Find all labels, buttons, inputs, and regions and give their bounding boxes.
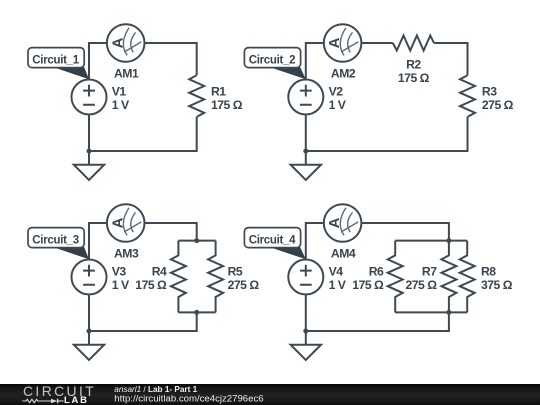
annotation box Circuit_4 <box>244 228 300 248</box>
annotation box Circuit_2 <box>244 48 300 68</box>
svg-text:R1: R1 <box>211 85 226 99</box>
svg-text:http://circuitlab.com/ce4cjz27: http://circuitlab.com/ce4cjz2796ec6 <box>114 394 263 405</box>
ammeter AM1 <box>107 24 145 62</box>
voltage source V3 <box>72 260 107 295</box>
wire AM4 to parallel node <box>362 223 449 241</box>
svg-text:1 V: 1 V <box>329 278 347 292</box>
svg-text:V4: V4 <box>329 265 344 279</box>
svg-text:R8: R8 <box>481 265 496 279</box>
label R6 value <box>352 265 384 293</box>
label R1 value <box>211 85 243 113</box>
wire AM3 to parallel node <box>145 223 197 241</box>
wire V1 bottom to ground <box>88 115 90 165</box>
voltage source V1 <box>72 80 107 115</box>
svg-text:175 Ω: 175 Ω <box>135 278 167 292</box>
label R5 value <box>228 265 260 293</box>
label R4 value <box>135 265 167 293</box>
svg-text:R6: R6 <box>369 265 384 279</box>
label AM4 <box>331 247 356 261</box>
ground <box>291 165 321 180</box>
annotation box Circuit_1 <box>28 48 84 68</box>
wire V2 bottom to ground <box>305 115 307 165</box>
wire top bracket <box>395 240 467 242</box>
junction dot bottom node <box>446 310 451 315</box>
wire bottom node to bottom rail <box>306 312 449 331</box>
wire V2 top to AM2 <box>306 43 324 80</box>
logo resistor-diode squiggle <box>22 399 63 404</box>
label R2 value <box>398 58 430 86</box>
svg-text:ansarl1 / Lab 1- Part 1: ansarl1 / Lab 1- Part 1 <box>114 385 197 394</box>
label AM1 <box>114 67 139 81</box>
label R3 value <box>482 85 514 113</box>
resistor R7 <box>441 241 456 313</box>
label R8 value <box>481 265 513 293</box>
wire V3 bottom to ground <box>88 295 90 345</box>
wire V1 top to AM1 <box>89 43 107 80</box>
junction dot node V4- <box>303 329 308 334</box>
resistor R4 <box>171 241 186 313</box>
svg-text:Circuit_4: Circuit_4 <box>249 234 296 246</box>
wire V4 bottom to ground <box>305 295 307 345</box>
svg-text:1 V: 1 V <box>329 98 347 112</box>
footer url line <box>114 394 263 405</box>
junction dot node V3- <box>87 329 92 334</box>
wire R2 to R3 top <box>434 43 468 75</box>
label V1 value <box>112 85 130 113</box>
wire R3 bottom to node <box>306 117 468 151</box>
resistor R1 <box>189 75 204 117</box>
svg-text:275 Ω: 275 Ω <box>482 98 514 112</box>
wire V4 top to AM4 <box>306 223 324 260</box>
svg-text:275 Ω: 275 Ω <box>406 278 438 292</box>
annotation pointer Circuit_3 <box>52 247 89 259</box>
resistor R6 <box>388 241 403 313</box>
wire AM2 to R2 <box>362 42 393 44</box>
ground <box>74 165 104 180</box>
svg-text:275 Ω: 275 Ω <box>228 278 260 292</box>
wire V3 top to AM3 <box>89 223 107 260</box>
svg-text:175 Ω: 175 Ω <box>398 71 430 85</box>
junction dot top node <box>194 238 199 243</box>
wire bottom bracket <box>178 311 215 313</box>
svg-text:AM2: AM2 <box>331 67 356 81</box>
annotation pointer Circuit_1 <box>52 67 89 80</box>
svg-text:V1: V1 <box>112 85 127 99</box>
annotation pointer Circuit_4 <box>269 247 306 259</box>
label V3 value <box>112 265 130 293</box>
footer title line <box>114 385 197 394</box>
wire bottom bracket <box>395 311 467 313</box>
svg-text:175 Ω: 175 Ω <box>352 278 384 292</box>
label R7 value <box>406 265 438 293</box>
logo CIRCUIT text <box>23 383 96 399</box>
annotation box Circuit_3 <box>28 228 84 248</box>
voltage source V2 <box>288 80 323 115</box>
resistor R5 <box>208 241 223 313</box>
svg-text:175 Ω: 175 Ω <box>211 98 243 112</box>
annotation pointer Circuit_2 <box>269 67 306 80</box>
svg-text:R5: R5 <box>228 265 243 279</box>
svg-text:R3: R3 <box>482 85 497 99</box>
label V2 value <box>329 85 347 113</box>
svg-text:AM1: AM1 <box>114 67 139 81</box>
svg-text:V3: V3 <box>112 265 127 279</box>
ammeter AM3 <box>107 204 145 242</box>
svg-text:R2: R2 <box>406 58 421 72</box>
svg-text:LAB: LAB <box>64 394 89 405</box>
resistor R3 <box>460 75 475 117</box>
svg-text:R7: R7 <box>422 265 437 279</box>
ammeter AM2 <box>324 24 362 62</box>
logo LAB text <box>64 394 89 405</box>
svg-text:V2: V2 <box>329 85 344 99</box>
resistor R2 <box>393 36 434 51</box>
wire R1 bottom to node <box>89 117 197 151</box>
label AM3 <box>114 247 139 261</box>
svg-text:R4: R4 <box>152 265 167 279</box>
svg-text:Circuit_2: Circuit_2 <box>249 54 296 66</box>
ground <box>291 345 321 360</box>
wire AM1 to R1 top <box>145 43 197 75</box>
junction dot node V1- <box>87 149 92 154</box>
wire bottom node to bottom rail <box>89 312 197 331</box>
svg-text:375 Ω: 375 Ω <box>481 278 513 292</box>
junction dot bottom node <box>194 310 199 315</box>
wire top bracket <box>178 240 215 242</box>
resistor R8 <box>460 241 475 313</box>
junction dot top node <box>446 238 451 243</box>
junction dot node V2- <box>303 149 308 154</box>
label AM2 <box>331 67 356 81</box>
svg-text:1 V: 1 V <box>112 278 130 292</box>
voltage source V4 <box>288 260 323 295</box>
svg-text:Circuit_1: Circuit_1 <box>32 54 79 66</box>
svg-text:Circuit_3: Circuit_3 <box>32 234 79 246</box>
svg-text:AM3: AM3 <box>114 247 139 261</box>
svg-text:1 V: 1 V <box>112 98 130 112</box>
ground <box>74 345 104 360</box>
ammeter AM4 <box>324 204 362 242</box>
label V4 value <box>329 265 347 293</box>
svg-text:AM4: AM4 <box>331 247 356 261</box>
